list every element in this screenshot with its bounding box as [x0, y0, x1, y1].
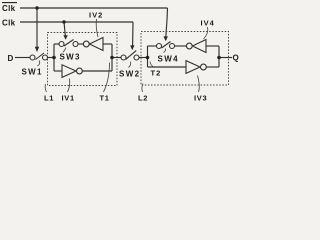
- svg-text:L1: L1: [44, 94, 54, 103]
- svg-text:Clk: Clk: [2, 4, 16, 13]
- svg-text:IV1: IV1: [62, 94, 75, 103]
- svg-text:IV3: IV3: [194, 94, 207, 103]
- svg-text:T2: T2: [151, 69, 162, 78]
- svg-text:SW1: SW1: [22, 68, 43, 77]
- svg-text:IV4: IV4: [201, 19, 215, 28]
- svg-text:T1: T1: [100, 94, 110, 103]
- svg-text:SW3: SW3: [60, 53, 81, 62]
- svg-text:Q: Q: [233, 54, 239, 63]
- svg-text:Clk: Clk: [2, 19, 16, 28]
- svg-text:D: D: [8, 54, 14, 63]
- svg-text:SW2: SW2: [119, 70, 141, 79]
- svg-text:L2: L2: [138, 94, 148, 103]
- svg-text:SW4: SW4: [158, 55, 180, 64]
- svg-text:IV2: IV2: [89, 11, 103, 20]
